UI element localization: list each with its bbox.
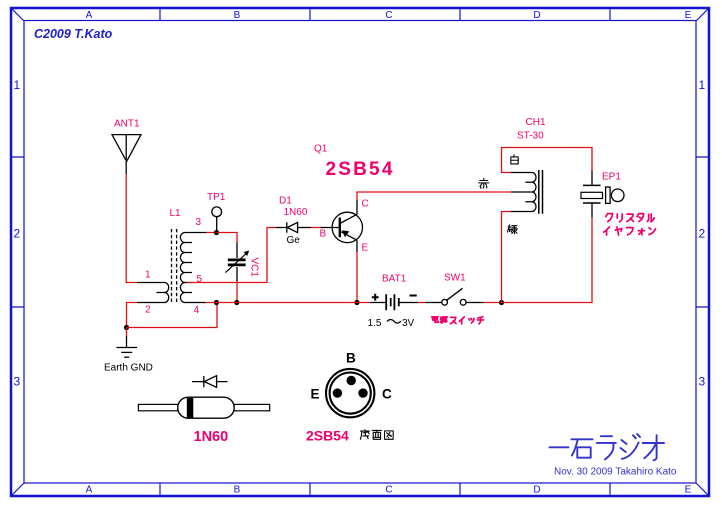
svg-text:E: E [362,243,369,254]
svg-text:3V: 3V [402,318,415,329]
svg-text:ANT1: ANT1 [114,119,140,130]
transistor Q1 [321,200,363,252]
svg-text:B: B [234,485,241,496]
label 底面図 [360,430,393,439]
node emitter rail junction [354,300,359,305]
node VC1 rail junction [234,300,239,305]
svg-text:Nov. 30 2009 Takahiro Kato: Nov. 30 2009 Takahiro Kato [554,467,677,478]
earphone EP1 [581,171,624,218]
svg-text:B: B [234,10,241,21]
wire D1 to Q1 base [311,227,321,229]
label クリスタル [606,214,654,222]
diode D1 [276,222,311,232]
wire Q1 collector to CH1 tap [357,192,511,200]
label イヤフォン [604,227,656,235]
transformer CH1 [511,170,543,214]
wire battery to switch [418,302,425,304]
wire ground stub [126,328,128,337]
label 赤 (red) [479,179,489,189]
transistor bottom view 2SB54 [326,369,374,417]
svg-text:3: 3 [13,375,20,389]
svg-text:A: A [86,485,93,496]
wire Q1 emitter to rail [356,252,358,302]
svg-text:D: D [533,485,540,496]
svg-text:BAT1: BAT1 [382,274,407,285]
svg-text:E: E [685,10,692,21]
svg-text:3: 3 [698,375,705,389]
wire rail L1 pin4 to battery [205,302,370,304]
wire TP1 node to VC1 top [217,233,238,244]
node ground junction [124,325,129,330]
wire CH1 white lead to EP1 top [502,148,593,173]
wire L1 pin5 to D1 [187,228,277,283]
label 電源スイッチ [432,317,484,324]
wire rail to EP1 bottom [502,218,593,303]
svg-text:E: E [311,387,320,402]
battery BAT1 [370,294,418,310]
svg-text:Ge: Ge [287,235,301,246]
svg-text:E: E [685,485,692,496]
svg-text:5: 5 [197,274,203,285]
svg-text:C2009 T.Kato: C2009 T.Kato [34,27,113,41]
diode package drawing 1N60 [138,376,269,419]
node CH1 rail junction [499,300,504,305]
svg-text:VC1: VC1 [249,258,260,278]
svg-text:1N60: 1N60 [194,429,229,445]
svg-text:Q1: Q1 [314,144,328,155]
svg-text:D: D [533,10,540,21]
node TP1 junction [214,230,219,235]
wire antenna to L1 pin 1 [126,174,137,283]
svg-text:C: C [382,387,392,402]
svg-text:B: B [320,229,327,240]
node L1 pin4 junction [214,300,219,305]
test point TP1 [212,207,222,233]
svg-text:L1: L1 [170,208,182,219]
label 白 (white) [511,155,518,164]
svg-text:2SB54: 2SB54 [306,428,349,444]
svg-text:4: 4 [194,305,200,316]
svg-text:EP1: EP1 [602,172,621,183]
svg-text:1: 1 [145,270,151,281]
svg-text:CH1: CH1 [526,117,546,128]
switch SW1 [426,288,484,305]
wire switch to CH1 node [484,302,502,304]
wire VC1 bottom to rail [236,282,238,303]
svg-text:1: 1 [13,78,20,92]
svg-text:A: A [86,10,93,21]
wire L1 pin3 to TP1 node [206,232,217,234]
svg-text:3: 3 [196,217,202,228]
svg-text:1.5: 1.5 [368,318,382,329]
svg-text:1N60: 1N60 [284,207,308,218]
svg-text:Earth GND: Earth GND [104,363,153,374]
svg-text:B: B [346,351,356,366]
antenna ANT1 [111,135,141,174]
svg-text:2SB54: 2SB54 [326,159,395,180]
svg-text:C: C [385,10,392,21]
svg-text:2: 2 [13,227,20,241]
transformer L1 [137,229,206,304]
svg-text:ST-30: ST-30 [517,131,544,142]
ground Earth GND [116,336,137,357]
svg-text:TP1: TP1 [207,192,226,203]
wire CH1 green lead to rail [502,212,511,303]
svg-text:D1: D1 [279,196,292,207]
wire ground node to rail [127,303,218,328]
wire L1 pin2 to ground node [127,303,138,328]
svg-text:C: C [362,199,369,210]
svg-text:C: C [385,485,392,496]
label 緑 (green) [508,225,518,234]
drawing title 一石ラジオ [550,434,665,460]
svg-text:1: 1 [698,78,705,92]
svg-text:2: 2 [145,305,151,316]
variable capacitor VC1 [225,243,249,283]
svg-text:2: 2 [698,227,705,241]
svg-text:SW1: SW1 [444,273,466,284]
